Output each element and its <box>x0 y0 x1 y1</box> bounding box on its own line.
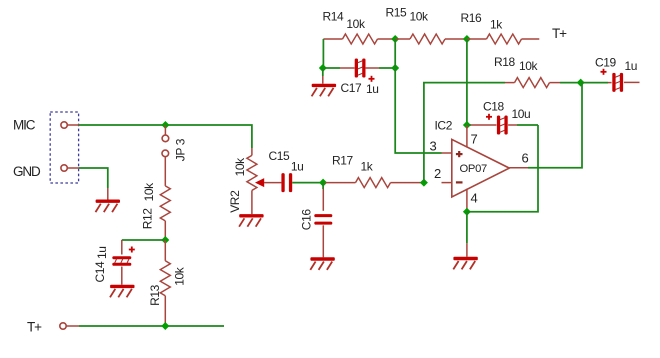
pin 7 stub <box>466 125 468 148</box>
ground (C14) <box>110 285 134 288</box>
node R18/C19/output junction <box>577 79 585 87</box>
svg-text:R18: R18 <box>494 55 516 69</box>
svg-text:1u: 1u <box>291 160 304 174</box>
op-amp minus input mark <box>456 181 463 183</box>
svg-text:3: 3 <box>430 139 437 154</box>
svg-text:C18: C18 <box>483 100 505 114</box>
svg-text:10k: 10k <box>233 157 247 177</box>
svg-text:IC2: IC2 <box>435 119 453 133</box>
ground (op-amp pin 4) <box>466 212 468 244</box>
ground (C16) <box>310 257 334 260</box>
svg-text:C15: C15 <box>269 149 291 163</box>
svg-text:10k: 10k <box>142 182 156 202</box>
svg-text:10k: 10k <box>346 17 366 31</box>
jumper JP3 pin 2 <box>162 150 169 157</box>
resistor R17 <box>325 182 356 184</box>
svg-text:1k: 1k <box>361 160 374 174</box>
svg-text:R13: R13 <box>148 284 162 306</box>
capacitor C15 <box>281 173 284 192</box>
op-amp plus input mark <box>456 153 463 155</box>
svg-text:7: 7 <box>471 132 478 147</box>
wire output to C19 junction <box>528 83 582 168</box>
svg-text:1u: 1u <box>366 82 379 96</box>
svg-text:10u: 10u <box>512 107 531 121</box>
node R15/R16 junction <box>463 35 471 43</box>
capacitor C19 <box>581 82 608 84</box>
ground (VR2) <box>239 214 263 217</box>
svg-text:C16: C16 <box>299 209 313 231</box>
node MIC junction <box>161 121 169 129</box>
op-amp IC2 OP07 <box>452 139 510 197</box>
wire R14 left vertical <box>322 39 324 68</box>
ground (input GND) <box>107 188 109 200</box>
pin 2 stub <box>442 182 452 184</box>
svg-text:JP 3: JP 3 <box>174 138 188 161</box>
node C17 left junction <box>319 64 327 72</box>
svg-text:10k: 10k <box>519 59 539 73</box>
node pin7 / C18 junction <box>463 121 471 129</box>
resistor R16 <box>467 38 487 40</box>
node R12/R13/C14 junction <box>161 236 169 244</box>
pin 3 stub <box>442 152 452 154</box>
jumper JP3 pin 1 <box>164 125 166 135</box>
svg-text:1u: 1u <box>95 246 109 259</box>
connector dashed box <box>50 112 78 183</box>
wire MIC net <box>79 125 252 148</box>
ground (C17) <box>322 68 324 76</box>
wire R18 left net <box>424 83 505 183</box>
svg-text:VR2: VR2 <box>228 190 242 213</box>
svg-text:R16: R16 <box>461 11 483 25</box>
wire T+ rail <box>79 325 224 327</box>
svg-text:2: 2 <box>434 166 441 181</box>
svg-text:R17: R17 <box>332 154 354 168</box>
wire feedback vertical to pin3 <box>395 39 441 153</box>
capacitor C14 <box>112 256 131 259</box>
wire V+ vertical (R15/R16 node to pin 7) <box>466 39 468 125</box>
svg-text:T+: T+ <box>552 26 567 41</box>
svg-text:C14: C14 <box>93 261 107 283</box>
resistor R13 <box>164 240 166 261</box>
resistor R12 <box>164 157 166 186</box>
svg-text:6: 6 <box>522 151 529 166</box>
svg-text:10k: 10k <box>410 10 430 24</box>
capacitor C17 <box>323 67 340 69</box>
potentiometer VR2 <box>251 148 253 155</box>
svg-text:R15: R15 <box>386 6 408 20</box>
terminal MIC pad <box>67 124 79 126</box>
node R14/R15 junction <box>391 35 399 43</box>
resistor R14 <box>323 38 342 40</box>
svg-text:MIC: MIC <box>13 118 36 133</box>
pin 4 stub <box>466 189 468 212</box>
pin 6 output stub <box>509 167 528 169</box>
svg-text:R12: R12 <box>141 208 155 230</box>
svg-text:T+: T+ <box>27 320 42 335</box>
wire GND to ground <box>79 168 108 188</box>
wire C18 right loop to pin 4 <box>467 125 538 212</box>
terminal GND pad <box>67 167 79 169</box>
label JP 3 <box>174 138 188 161</box>
VR2 wiper arrow <box>255 178 264 187</box>
svg-text:1u: 1u <box>625 59 638 73</box>
svg-text:GND: GND <box>13 164 41 179</box>
svg-text:C17: C17 <box>341 81 363 95</box>
terminal T+ pad <box>66 325 79 327</box>
node R17/R18 feedback junction <box>420 179 428 187</box>
svg-text:OP07: OP07 <box>460 163 487 175</box>
node C15/C16/R17 junction <box>319 179 327 187</box>
node pin 4 junction <box>463 208 471 216</box>
node C17 right junction <box>391 64 399 72</box>
svg-text:4: 4 <box>471 191 478 206</box>
svg-text:1k: 1k <box>490 18 503 32</box>
wire C14 net <box>122 239 166 241</box>
svg-text:C19: C19 <box>595 56 617 70</box>
resistor R18 <box>505 82 515 84</box>
resistor R15 <box>395 38 410 40</box>
svg-text:10k: 10k <box>172 266 186 286</box>
svg-text:R14: R14 <box>323 10 345 24</box>
capacitor C16 <box>322 183 324 189</box>
capacitor C18 <box>467 124 471 126</box>
node T+ / R13 junction <box>161 322 169 330</box>
